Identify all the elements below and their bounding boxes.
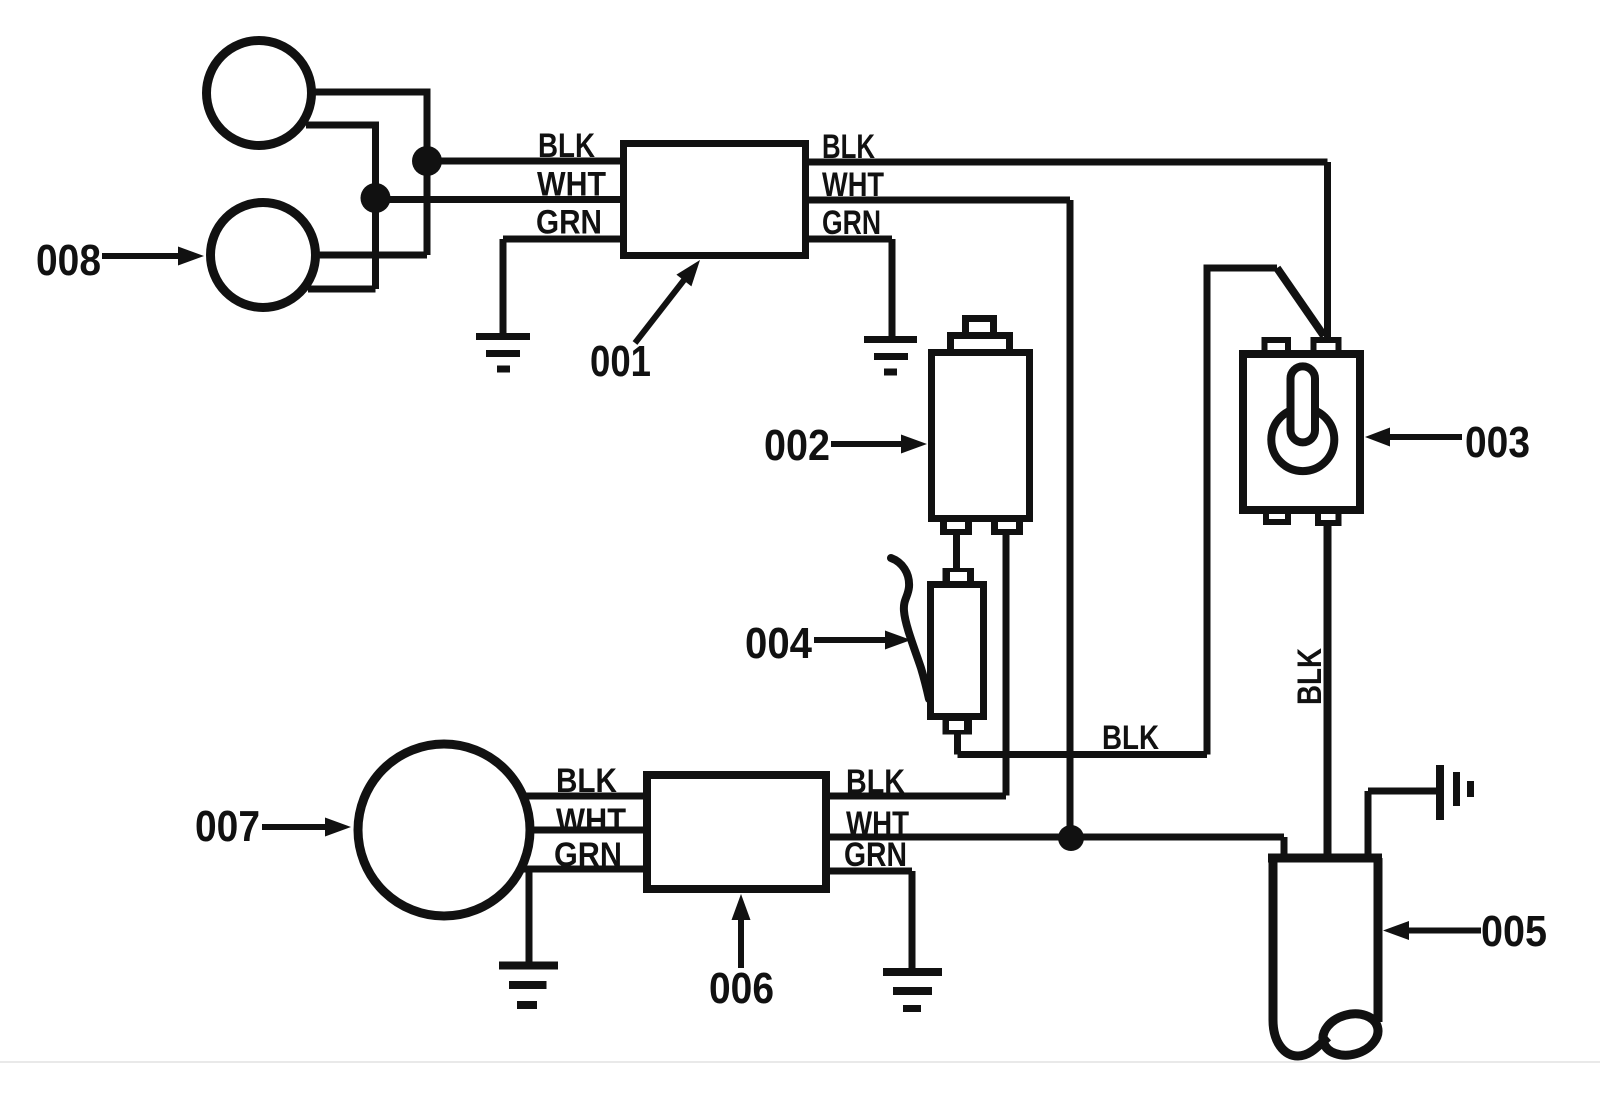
headlamp upper circle (008) — [207, 41, 312, 146]
spark plug 005: wire loop — [1318, 1008, 1383, 1062]
ignition coil 002: top nub — [962, 315, 997, 332]
fuse 004: top tab — [943, 568, 975, 581]
fuse 004: lever curve — [891, 558, 929, 699]
wire: WHT right of 001 down to junction — [806, 200, 1070, 838]
ignition switch 003: top-right tab — [1311, 337, 1342, 350]
wire: diagonal into switch top-right pin — [1277, 268, 1324, 336]
wire: 002 right tab down to 006 BLK — [1003, 532, 1010, 796]
wire: BLK bus vertical — [424, 89, 431, 256]
wire: 006 GRN right down to ground — [823, 871, 912, 968]
wire: lower lamp lower stub — [308, 286, 376, 293]
wire: 007 WHT to 006 — [532, 827, 650, 834]
alternator 007 — [358, 744, 530, 916]
ignition switch 003: bottom-right tab — [1315, 514, 1342, 526]
svg-text:001: 001 — [590, 337, 651, 386]
ignition switch 003: body — [1243, 354, 1360, 510]
ground G3 (below 007) — [499, 962, 558, 1010]
wire: 007 ground stem — [526, 869, 533, 962]
node: WHT junction dot — [1058, 825, 1084, 851]
svg-text:007: 007 — [195, 802, 260, 851]
ground G4 (right of 006) — [883, 968, 942, 1012]
svg-text:GRN: GRN — [536, 204, 602, 242]
ignition coil 002: top cap — [947, 332, 1013, 350]
headlamp lower circle (008) — [211, 203, 316, 308]
svg-text:BLK: BLK — [538, 127, 595, 165]
wire: lower lamp upper stub — [314, 252, 427, 259]
ground G5 (sideways, right of plug) — [1436, 765, 1474, 820]
wire: WHT into 001 — [376, 196, 624, 203]
wire: 007 BLK to 006 — [526, 793, 650, 800]
svg-text:002: 002 — [764, 421, 830, 470]
ignition switch 003: key circle — [1271, 408, 1334, 471]
svg-text:BLK: BLK — [1291, 648, 1329, 705]
svg-text:WHT: WHT — [556, 802, 626, 840]
svg-text:005: 005 — [1481, 907, 1547, 956]
fuse 004: bottom tab — [943, 720, 973, 735]
ignition coil 002: body — [932, 353, 1030, 519]
ignition switch 003: key slot — [1291, 366, 1316, 442]
ground G2 (below 001 right) — [864, 336, 917, 376]
wire: WHT bus vertical — [372, 122, 379, 290]
wire: GRN left of 001 down to ground — [503, 239, 623, 334]
wire: upper lamp lower stub — [306, 122, 376, 129]
node: WHT junction dot — [361, 183, 391, 213]
wire: 006 BLK right up to 002 — [823, 793, 1006, 800]
wire: 004 bottom to riser and over to switch — [958, 268, 1278, 755]
svg-text:003: 003 — [1465, 418, 1530, 467]
ignition switch 003: bottom-left tab — [1263, 514, 1291, 525]
regulator 006 — [647, 775, 826, 889]
node: BLK junction dot — [412, 146, 442, 176]
control unit 001 — [624, 144, 806, 256]
ignition coil 002: bottom-right tab — [991, 522, 1023, 535]
ground G1 (below 001 left) — [476, 333, 530, 373]
svg-text:008: 008 — [36, 236, 101, 285]
wire: BLK right of 001 to switch — [806, 162, 1328, 340]
svg-text:004: 004 — [745, 619, 812, 668]
fuse 004: body — [931, 585, 984, 717]
ignition coil 002: bottom-left tab — [940, 522, 972, 535]
spark plug 005: top — [1268, 854, 1382, 863]
svg-text:006: 006 — [709, 964, 774, 1013]
wire: BLK into 001 — [427, 158, 623, 165]
wire: upper lamp to BLK bus — [310, 89, 427, 96]
ignition switch 003: top-left tab — [1262, 337, 1292, 350]
wire: spark plug to ground (top right) — [1368, 791, 1437, 860]
svg-text:BLK: BLK — [1102, 719, 1159, 757]
wire: 002 left tab down to fuse 004 — [953, 532, 960, 570]
faint page edge line at bottom — [0, 1061, 1600, 1063]
wire: 006 WHT right to spark plug — [823, 837, 1284, 860]
wire: 007 GRN to 006 — [524, 866, 650, 873]
wire: switch bottom to spark plug (BLK) — [1324, 523, 1332, 858]
spark plug 005: right side — [1374, 858, 1383, 1022]
spark plug 005: left side and bottom curve — [1273, 858, 1328, 1056]
wire: GRN right of 001 down to ground — [806, 239, 892, 337]
svg-text:WHT: WHT — [537, 166, 606, 204]
